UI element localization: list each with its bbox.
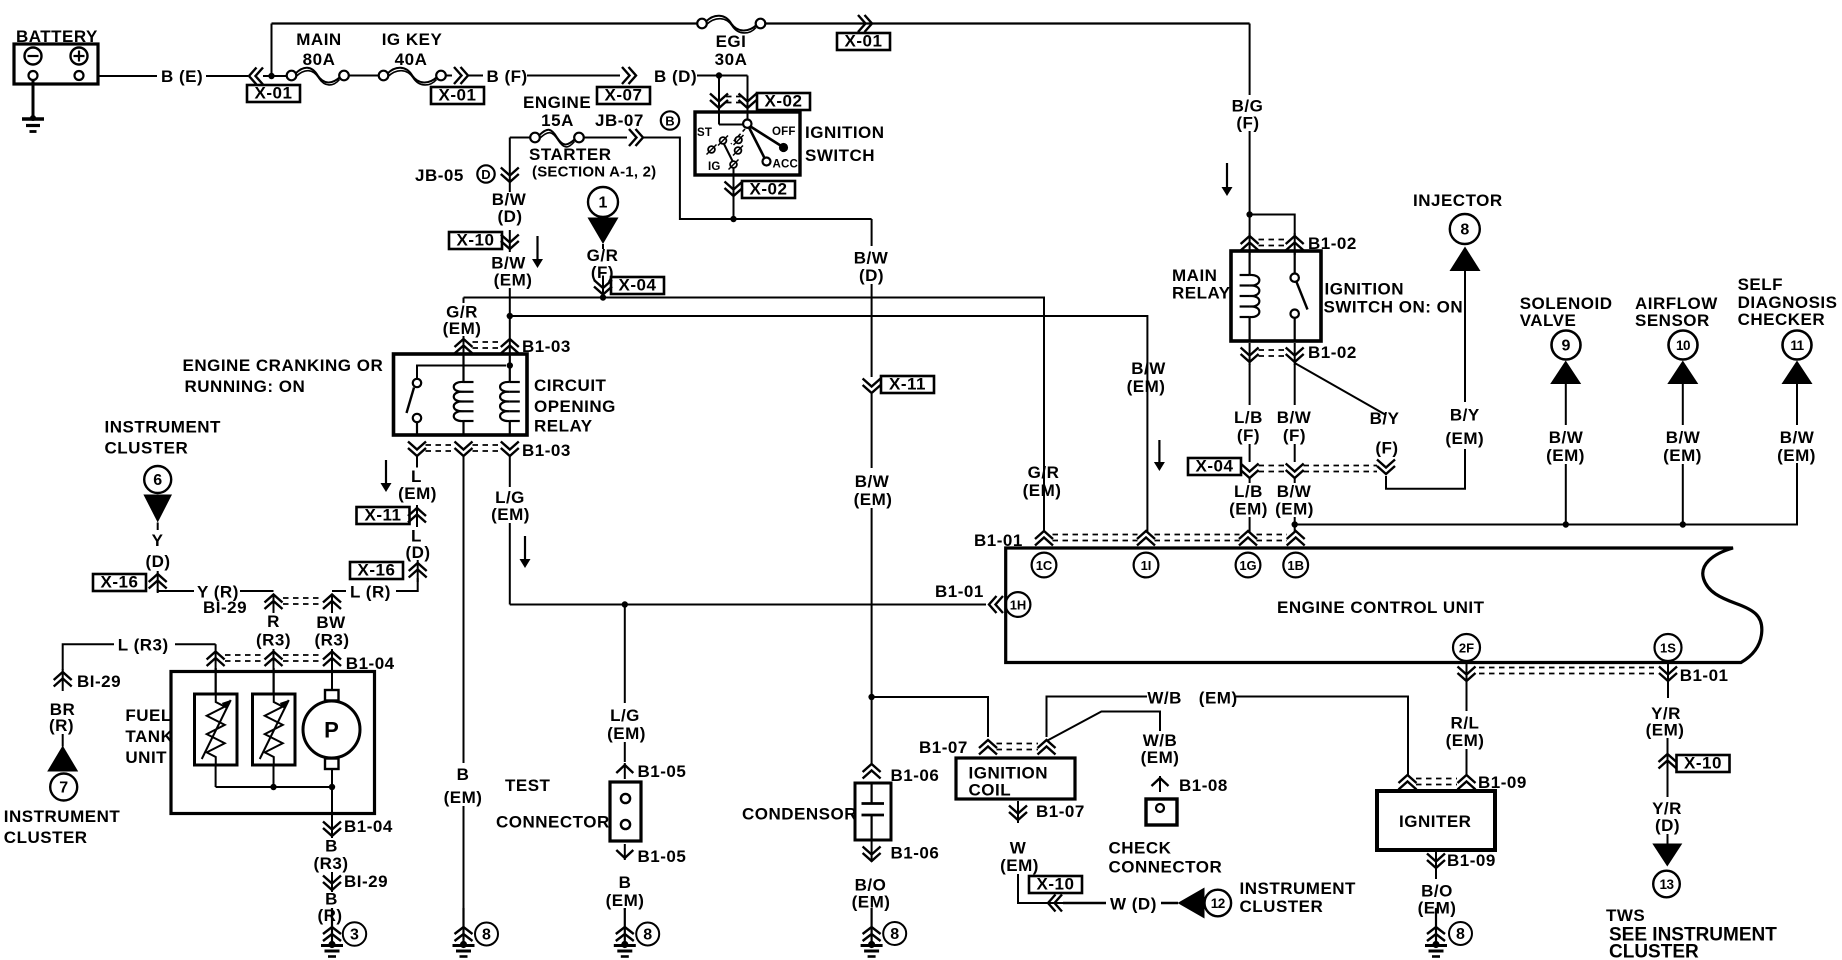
- svg-text:CLUSTER: CLUSTER: [1240, 897, 1324, 916]
- svg-text:1H: 1H: [1010, 597, 1027, 612]
- svg-text:B1-03: B1-03: [522, 337, 571, 356]
- svg-text:(EM): (EM): [491, 505, 530, 524]
- svg-text:B1-04: B1-04: [344, 817, 393, 836]
- svg-text:IGNITION: IGNITION: [1325, 280, 1405, 299]
- fuel tank unit box: [171, 672, 375, 814]
- wire W/B (EM) to igniter: [1047, 697, 1148, 738]
- wire G/R (EM) down-left column: [463, 298, 465, 304]
- arrow to circled 13: [1667, 834, 1669, 844]
- wire W/B from condensor junction to coil: [872, 697, 988, 737]
- svg-text:EGI: EGI: [716, 32, 747, 51]
- connector B1-04 chevron below box: [323, 822, 341, 837]
- top bus wire: [272, 22, 698, 24]
- svg-text:R/L: R/L: [1451, 714, 1480, 733]
- svg-text:X-11: X-11: [889, 375, 926, 394]
- svg-text:L/G: L/G: [610, 706, 640, 725]
- svg-text:8: 8: [482, 927, 491, 944]
- connector X-02 label box: [757, 93, 810, 110]
- svg-text:8: 8: [890, 926, 899, 943]
- svg-text:RELAY: RELAY: [1172, 284, 1231, 303]
- svg-text:X-10: X-10: [457, 231, 495, 250]
- svg-text:VALVE: VALVE: [1520, 311, 1577, 330]
- node junction solenoid valve: [1563, 521, 1569, 527]
- wire B (R3) output: [331, 787, 333, 820]
- connector X-04 chevron: [602, 276, 604, 298]
- flow arrow down at L column: [385, 460, 387, 484]
- connector X-10 label box right: [1677, 755, 1730, 772]
- svg-text:(D): (D): [145, 552, 170, 571]
- wire branch to relay switch: [1250, 215, 1295, 238]
- svg-text:L (R3): L (R3): [118, 636, 169, 655]
- svg-text:3: 3: [350, 927, 359, 944]
- wire corner L (R): [396, 578, 418, 591]
- connector X-02 label box 2: [742, 181, 795, 198]
- svg-text:CHECKER: CHECKER: [1738, 310, 1826, 329]
- connector X-10 label box: [449, 232, 502, 249]
- svg-text:B1-01: B1-01: [1680, 666, 1729, 685]
- wire between fuses: [349, 75, 380, 77]
- ground B (EM) circled 8: [462, 908, 464, 945]
- svg-text:13: 13: [1659, 877, 1674, 892]
- svg-text:B1-01: B1-01: [974, 531, 1023, 550]
- svg-text:1I: 1I: [1141, 558, 1152, 573]
- wire B/Y (F) to corner: [1386, 449, 1465, 489]
- connector X-01 chevron top: [858, 15, 872, 32]
- wire branch to check connector: [1047, 712, 1161, 742]
- svg-text:(F): (F): [1283, 426, 1306, 445]
- svg-text:D: D: [481, 167, 490, 182]
- svg-text:JB-07: JB-07: [595, 111, 644, 130]
- node junction below ignition switch: [730, 216, 736, 222]
- svg-text:P: P: [324, 718, 339, 743]
- node junction above main relay: [1246, 211, 1252, 217]
- connector X-11 label box: [357, 507, 410, 524]
- svg-text:SWITCH ON: ON: SWITCH ON: ON: [1324, 298, 1464, 317]
- svg-text:B1-03: B1-03: [522, 441, 571, 460]
- svg-text:B: B: [325, 837, 338, 856]
- relay circuit opening relay box: [394, 354, 528, 435]
- svg-text:CIRCUIT: CIRCUIT: [534, 376, 607, 395]
- svg-text:FUEL: FUEL: [125, 706, 171, 725]
- wire solenoid valve column: [1565, 464, 1567, 525]
- svg-text:STARTER: STARTER: [529, 145, 612, 164]
- wire B/G (F) from top bus: [1249, 24, 1251, 96]
- svg-text:RUNNING: ON: RUNNING: ON: [185, 377, 306, 396]
- ECU pin 1S: [1655, 634, 1682, 661]
- svg-text:(EM): (EM): [444, 788, 483, 807]
- svg-text:L (R): L (R): [350, 583, 391, 602]
- connector X-01 chevron left: [249, 68, 263, 85]
- svg-text:MAIN: MAIN: [296, 30, 341, 49]
- svg-text:6: 6: [153, 472, 162, 489]
- wire B/W (EM) centre: [871, 394, 873, 468]
- solenoid valve arrow and circled 9: [1550, 361, 1581, 385]
- svg-text:COIL: COIL: [969, 781, 1012, 800]
- wire B/W (EM) bus to sensors: [1296, 463, 1797, 525]
- svg-text:(EM): (EM): [1646, 721, 1685, 740]
- wire label Y (D): [157, 523, 159, 531]
- svg-text:X-04: X-04: [619, 276, 657, 295]
- svg-text:X-04: X-04: [1196, 457, 1234, 476]
- svg-text:G/R: G/R: [1028, 463, 1060, 482]
- connector B1-05 chevron bottom: [624, 844, 626, 860]
- svg-text:B1-07: B1-07: [919, 738, 968, 757]
- connector B1-04 chevron row: [207, 652, 225, 667]
- node B (D) junction: [716, 72, 722, 78]
- svg-text:2F: 2F: [1459, 640, 1474, 655]
- connector B1-06 chevron below condensor: [863, 847, 881, 862]
- connector B1-01 chevrons below ECU: [1458, 667, 1476, 682]
- connector B1-07 chevron below coil: [1017, 801, 1019, 823]
- wire label B/W (EM): [1294, 478, 1296, 483]
- svg-text:(F): (F): [1237, 426, 1260, 445]
- flow arrow down at 1I: [1158, 440, 1160, 463]
- svg-text:IGNITION: IGNITION: [805, 123, 885, 142]
- flow arrow down B/G: [1226, 163, 1228, 188]
- svg-text:(EM): (EM): [1546, 446, 1585, 465]
- connector BI-29 chevron below: [323, 876, 341, 891]
- svg-text:JB-05: JB-05: [415, 166, 464, 185]
- svg-text:B1-05: B1-05: [638, 847, 687, 866]
- svg-text:(EM): (EM): [1141, 748, 1180, 767]
- wire B/W down from fuse corner: [509, 138, 511, 193]
- arrow to instrument cluster circled 12: [1178, 888, 1205, 919]
- wire Y (R): [158, 589, 194, 591]
- wire label B/W (F): [1294, 364, 1296, 405]
- svg-text:Y: Y: [152, 531, 164, 550]
- svg-text:10: 10: [1676, 338, 1690, 353]
- connector X-16 chevron: [417, 560, 419, 582]
- svg-text:CLUSTER: CLUSTER: [4, 828, 88, 847]
- svg-text:X-16: X-16: [358, 561, 396, 580]
- wire B/W down to junction: [509, 288, 511, 354]
- svg-text:1S: 1S: [1660, 640, 1676, 655]
- ECU pin 1B: [1283, 553, 1308, 578]
- main relay coil: [1248, 251, 1250, 275]
- igniter box: [1377, 791, 1495, 850]
- connector B1-01 chevrons above ECU: [1035, 531, 1053, 546]
- svg-text:SWITCH: SWITCH: [805, 146, 875, 165]
- wire L (R3): [63, 644, 114, 670]
- node junction airflow sensor: [1680, 521, 1686, 527]
- wire label L/B (EM): [1249, 478, 1251, 483]
- flow arrow down: [536, 236, 538, 260]
- svg-text:(D): (D): [859, 266, 884, 285]
- ECU pin 1H: [1006, 592, 1031, 617]
- connector BI-29 chevrons: [265, 595, 283, 610]
- check connector box: [1146, 799, 1177, 825]
- svg-text:CLUSTER: CLUSTER: [1609, 942, 1699, 960]
- svg-text:B (D): B (D): [654, 67, 697, 86]
- connector B1-05 chevron top: [624, 763, 626, 779]
- wire B1-01 bus to ECU pin 1H: [510, 604, 986, 606]
- connector X-02 chevrons above ignition switch: [710, 94, 728, 109]
- connector X-01 label box 3: [837, 33, 890, 50]
- wire B/Y diagonal from relay switch: [1295, 363, 1386, 415]
- svg-text:OPENING: OPENING: [534, 397, 616, 416]
- svg-text:(EM): (EM): [1229, 500, 1268, 519]
- connector B1-03 chevrons above relay: [455, 339, 473, 354]
- ECU pin 1C: [1032, 553, 1057, 578]
- connector X-07 chevron: [622, 67, 636, 84]
- svg-text:B1-08: B1-08: [1179, 776, 1228, 795]
- svg-text:1: 1: [599, 195, 608, 212]
- wire airflow sensor column: [1682, 464, 1684, 525]
- connector JB-05 chevron: [501, 168, 519, 183]
- svg-text:ST: ST: [697, 127, 712, 139]
- svg-text:MAIN: MAIN: [1172, 266, 1217, 285]
- wire from fuse to JB-07 chevron: [584, 137, 627, 139]
- svg-text:TEST: TEST: [505, 776, 551, 795]
- fuse MAIN 80A: [263, 75, 287, 77]
- svg-text:CLUSTER: CLUSTER: [105, 439, 189, 458]
- svg-text:(R): (R): [49, 716, 74, 735]
- connector X-01 label box: [247, 85, 300, 102]
- connector X-04 label box: [611, 277, 664, 294]
- svg-text:(D): (D): [1655, 816, 1680, 835]
- ignition switch box: [695, 112, 800, 175]
- wire corner down to B/W junction: [643, 138, 872, 220]
- connector X-11 chevron: [416, 505, 418, 527]
- svg-text:B: B: [619, 873, 632, 892]
- wire L/G (EM): [509, 456, 511, 487]
- svg-text:(EM): (EM): [1446, 731, 1485, 750]
- self diagnosis checker arrow and circled 11: [1782, 361, 1813, 385]
- ECU pin 1G: [1236, 553, 1261, 578]
- wire B/W (EM) horizontal to 1I: [510, 316, 1148, 532]
- node junction B/W to 1I bus: [507, 313, 513, 319]
- svg-text:B/W: B/W: [1277, 408, 1312, 427]
- wire B (E) from battery to X-01: [98, 75, 157, 77]
- svg-text:IG: IG: [708, 161, 721, 173]
- node junction test connector tap: [622, 601, 628, 607]
- svg-text:TWS: TWS: [1606, 906, 1645, 925]
- connector BI-29 chevron on BR wire: [62, 669, 64, 691]
- svg-text:INSTRUMENT: INSTRUMENT: [4, 807, 121, 826]
- svg-text:ENGINE: ENGINE: [523, 93, 591, 112]
- svg-text:TANK: TANK: [125, 727, 173, 746]
- svg-text:ENGINE CRANKING OR: ENGINE CRANKING OR: [183, 356, 384, 375]
- connector X-10 label box centre: [1029, 876, 1082, 893]
- airflow sensor arrow and circled 10: [1667, 361, 1698, 385]
- connector X-16 chevron left: [157, 571, 159, 593]
- svg-text:B/W: B/W: [1549, 428, 1584, 447]
- svg-text:(EM): (EM): [398, 484, 437, 503]
- svg-text:B/W: B/W: [1277, 482, 1312, 501]
- connector B1-07 chevrons: [979, 740, 997, 755]
- svg-text:B (F): B (F): [487, 67, 528, 86]
- svg-text:B/Y: B/Y: [1450, 406, 1480, 425]
- svg-text:X-01: X-01: [845, 32, 883, 51]
- connector X-07 label box: [597, 87, 650, 104]
- svg-text:X-01: X-01: [255, 84, 293, 103]
- svg-text:B1-05: B1-05: [638, 762, 687, 781]
- svg-text:IG KEY: IG KEY: [382, 30, 443, 49]
- node junction at X-01: [268, 73, 274, 79]
- svg-text:9: 9: [1562, 338, 1571, 355]
- relay coil 1: [462, 354, 464, 382]
- svg-text:(R): (R): [317, 906, 342, 925]
- wire up to top bus: [271, 24, 273, 77]
- wire label L/B (F): [1249, 364, 1251, 405]
- svg-text:B1-07: B1-07: [1036, 802, 1085, 821]
- svg-text:X-16: X-16: [101, 573, 139, 592]
- svg-text:B1-06: B1-06: [891, 766, 940, 785]
- ground igniter circled 8: [1435, 915, 1437, 918]
- connector X-02 chevron below switch: [725, 182, 743, 197]
- svg-text:40A: 40A: [395, 50, 428, 69]
- svg-text:W (D): W (D): [1110, 895, 1157, 914]
- svg-text:BI-29: BI-29: [344, 872, 388, 891]
- wire B (EM) down to ground: [463, 456, 465, 763]
- svg-text:R: R: [267, 612, 280, 631]
- svg-text:12: 12: [1211, 896, 1225, 911]
- svg-text:CONDENSOR: CONDENSOR: [742, 805, 857, 824]
- main relay box: [1231, 251, 1321, 341]
- svg-text:ENGINE CONTROL UNIT: ENGINE CONTROL UNIT: [1277, 598, 1485, 617]
- connector B1-08 chevron: [1159, 776, 1161, 792]
- flow arrow down at L/G: [524, 536, 526, 560]
- svg-text:(R3): (R3): [256, 631, 291, 650]
- wire L/G (EM) test connector: [624, 605, 626, 704]
- svg-text:(EM): (EM): [1275, 500, 1314, 519]
- svg-text:B/W: B/W: [1780, 428, 1815, 447]
- wire R/L (EM) from ECU 2F: [1466, 684, 1468, 711]
- svg-text:(EM): (EM): [1663, 446, 1702, 465]
- wire Y/R (EM) from ECU 1S: [1667, 684, 1669, 698]
- svg-text:1B: 1B: [1287, 558, 1304, 573]
- svg-text:SENSOR: SENSOR: [1635, 311, 1710, 330]
- connector X-16 label box left: [93, 574, 146, 591]
- fuel tank internal wiring: [215, 765, 217, 787]
- svg-text:X-07: X-07: [605, 86, 643, 105]
- svg-text:CONNECTOR: CONNECTOR: [496, 813, 610, 832]
- svg-text:BI-29: BI-29: [77, 672, 121, 691]
- svg-text:B (E): B (E): [161, 67, 203, 86]
- svg-text:INSTRUMENT: INSTRUMENT: [1240, 879, 1357, 898]
- svg-text:CHECK: CHECK: [1109, 839, 1172, 858]
- svg-text:INSTRUMENT: INSTRUMENT: [105, 418, 222, 437]
- connector B1-02 chevrons above relay: [1249, 233, 1251, 255]
- ignition coil box: [956, 758, 1075, 799]
- svg-text:8: 8: [1460, 222, 1469, 239]
- svg-text:X-10: X-10: [1684, 754, 1722, 773]
- svg-text:(EM): (EM): [494, 271, 533, 290]
- connector X-01 label box 2: [431, 87, 484, 104]
- wire B/W (D) centre column: [871, 219, 873, 246]
- svg-text:L/B: L/B: [1234, 408, 1263, 427]
- svg-text:B1-09: B1-09: [1447, 851, 1496, 870]
- top bus wire right: [765, 22, 1249, 24]
- svg-text:80A: 80A: [303, 50, 336, 69]
- ground condensor circled 8: [870, 908, 872, 945]
- svg-text:(F): (F): [1236, 114, 1259, 133]
- arrow to instrument cluster circled 7: [62, 734, 64, 747]
- fuel pump motor P: [331, 668, 333, 690]
- svg-text:X-02: X-02: [750, 180, 788, 199]
- wire L (EM): [416, 456, 418, 468]
- wire to ignition switch: [719, 75, 748, 77]
- wire B/Y (EM) up to injector: [1464, 271, 1466, 402]
- svg-text:(EM): (EM): [1777, 446, 1816, 465]
- connector X-01 chevron right: [454, 67, 468, 84]
- svg-text:UNIT: UNIT: [125, 748, 167, 767]
- svg-text:X-11: X-11: [365, 506, 402, 525]
- svg-text:(EM): (EM): [607, 724, 646, 743]
- connector B1-02 chevrons below relay: [1249, 343, 1251, 365]
- connector X-10 chevron: [509, 230, 511, 252]
- injector arrow and circled 8: [1450, 247, 1481, 272]
- svg-text:L/B: L/B: [1234, 482, 1263, 501]
- battery B+ B- symbol: [14, 44, 98, 84]
- svg-text:(EM): (EM): [1199, 689, 1238, 708]
- svg-text:X-02: X-02: [765, 92, 803, 111]
- connector X-10 chevron right: [1667, 751, 1669, 773]
- svg-text:(EM): (EM): [443, 319, 482, 338]
- wire label B/O (EM) igniter: [1435, 870, 1437, 879]
- ignition switch pole and contacts: [718, 112, 720, 125]
- svg-text:ACC: ACC: [773, 159, 799, 171]
- connector X-04 chevron row: [1241, 464, 1259, 479]
- fuse IG KEY 40A: [379, 71, 389, 81]
- svg-text:(EM): (EM): [1127, 377, 1166, 396]
- svg-text:IGNITER: IGNITER: [1399, 812, 1471, 831]
- wire label Y/R (D): [1667, 771, 1669, 797]
- relay switch: [413, 379, 421, 387]
- svg-text:8: 8: [643, 927, 652, 944]
- svg-text:(EM): (EM): [606, 891, 645, 910]
- svg-text:W: W: [1010, 839, 1027, 858]
- connector B1-09 chevron below igniter: [1435, 850, 1437, 870]
- svg-text:(EM): (EM): [1000, 856, 1039, 875]
- svg-text:(SECTION A-1, 2): (SECTION A-1, 2): [532, 164, 656, 181]
- engine control unit box: [1006, 548, 1762, 663]
- svg-text:BW: BW: [316, 613, 346, 632]
- svg-text:X-10: X-10: [1037, 875, 1075, 894]
- node junction G/R: [600, 294, 606, 300]
- connector X-10 chevron on W (D) wire: [1048, 895, 1062, 912]
- svg-text:(F): (F): [1375, 439, 1398, 458]
- test connector box: [610, 782, 641, 841]
- ground below battery: [32, 80, 35, 119]
- svg-text:B1-06: B1-06: [891, 844, 940, 863]
- node junction B/W (EM) bus: [1292, 521, 1298, 527]
- instrument cluster circled 6 arrow: [144, 466, 171, 493]
- wire G/R (EM) horizontal to 1C: [464, 298, 1045, 533]
- svg-text:(R3): (R3): [313, 854, 348, 873]
- condensor box and capacitor: [855, 783, 891, 840]
- ECU pin 2F: [1453, 634, 1480, 661]
- ground fuel tank circled 3: [331, 908, 333, 945]
- svg-text:30A: 30A: [715, 50, 748, 69]
- connector X-11 label box centre: [881, 376, 934, 393]
- svg-text:(EM): (EM): [1445, 429, 1484, 448]
- connector X-11 chevron centre: [863, 379, 881, 394]
- ECU pin 1I: [1134, 553, 1159, 578]
- fuel tank resistor 1: [215, 668, 217, 694]
- svg-text:BI-29: BI-29: [203, 598, 247, 617]
- svg-text:B/W: B/W: [1131, 359, 1166, 378]
- svg-text:1G: 1G: [1239, 558, 1256, 573]
- node junction W/B tap: [868, 694, 874, 700]
- wire W down and to instrument cluster: [1018, 874, 1066, 903]
- wire W (D): [1063, 902, 1106, 904]
- svg-text:7: 7: [59, 780, 68, 797]
- connector B1-09 chevrons above igniter: [1399, 775, 1417, 790]
- svg-text:(EM): (EM): [1023, 481, 1062, 500]
- fuse EGI 30A: [697, 19, 707, 29]
- wire to X-01 right chevron: [446, 75, 452, 77]
